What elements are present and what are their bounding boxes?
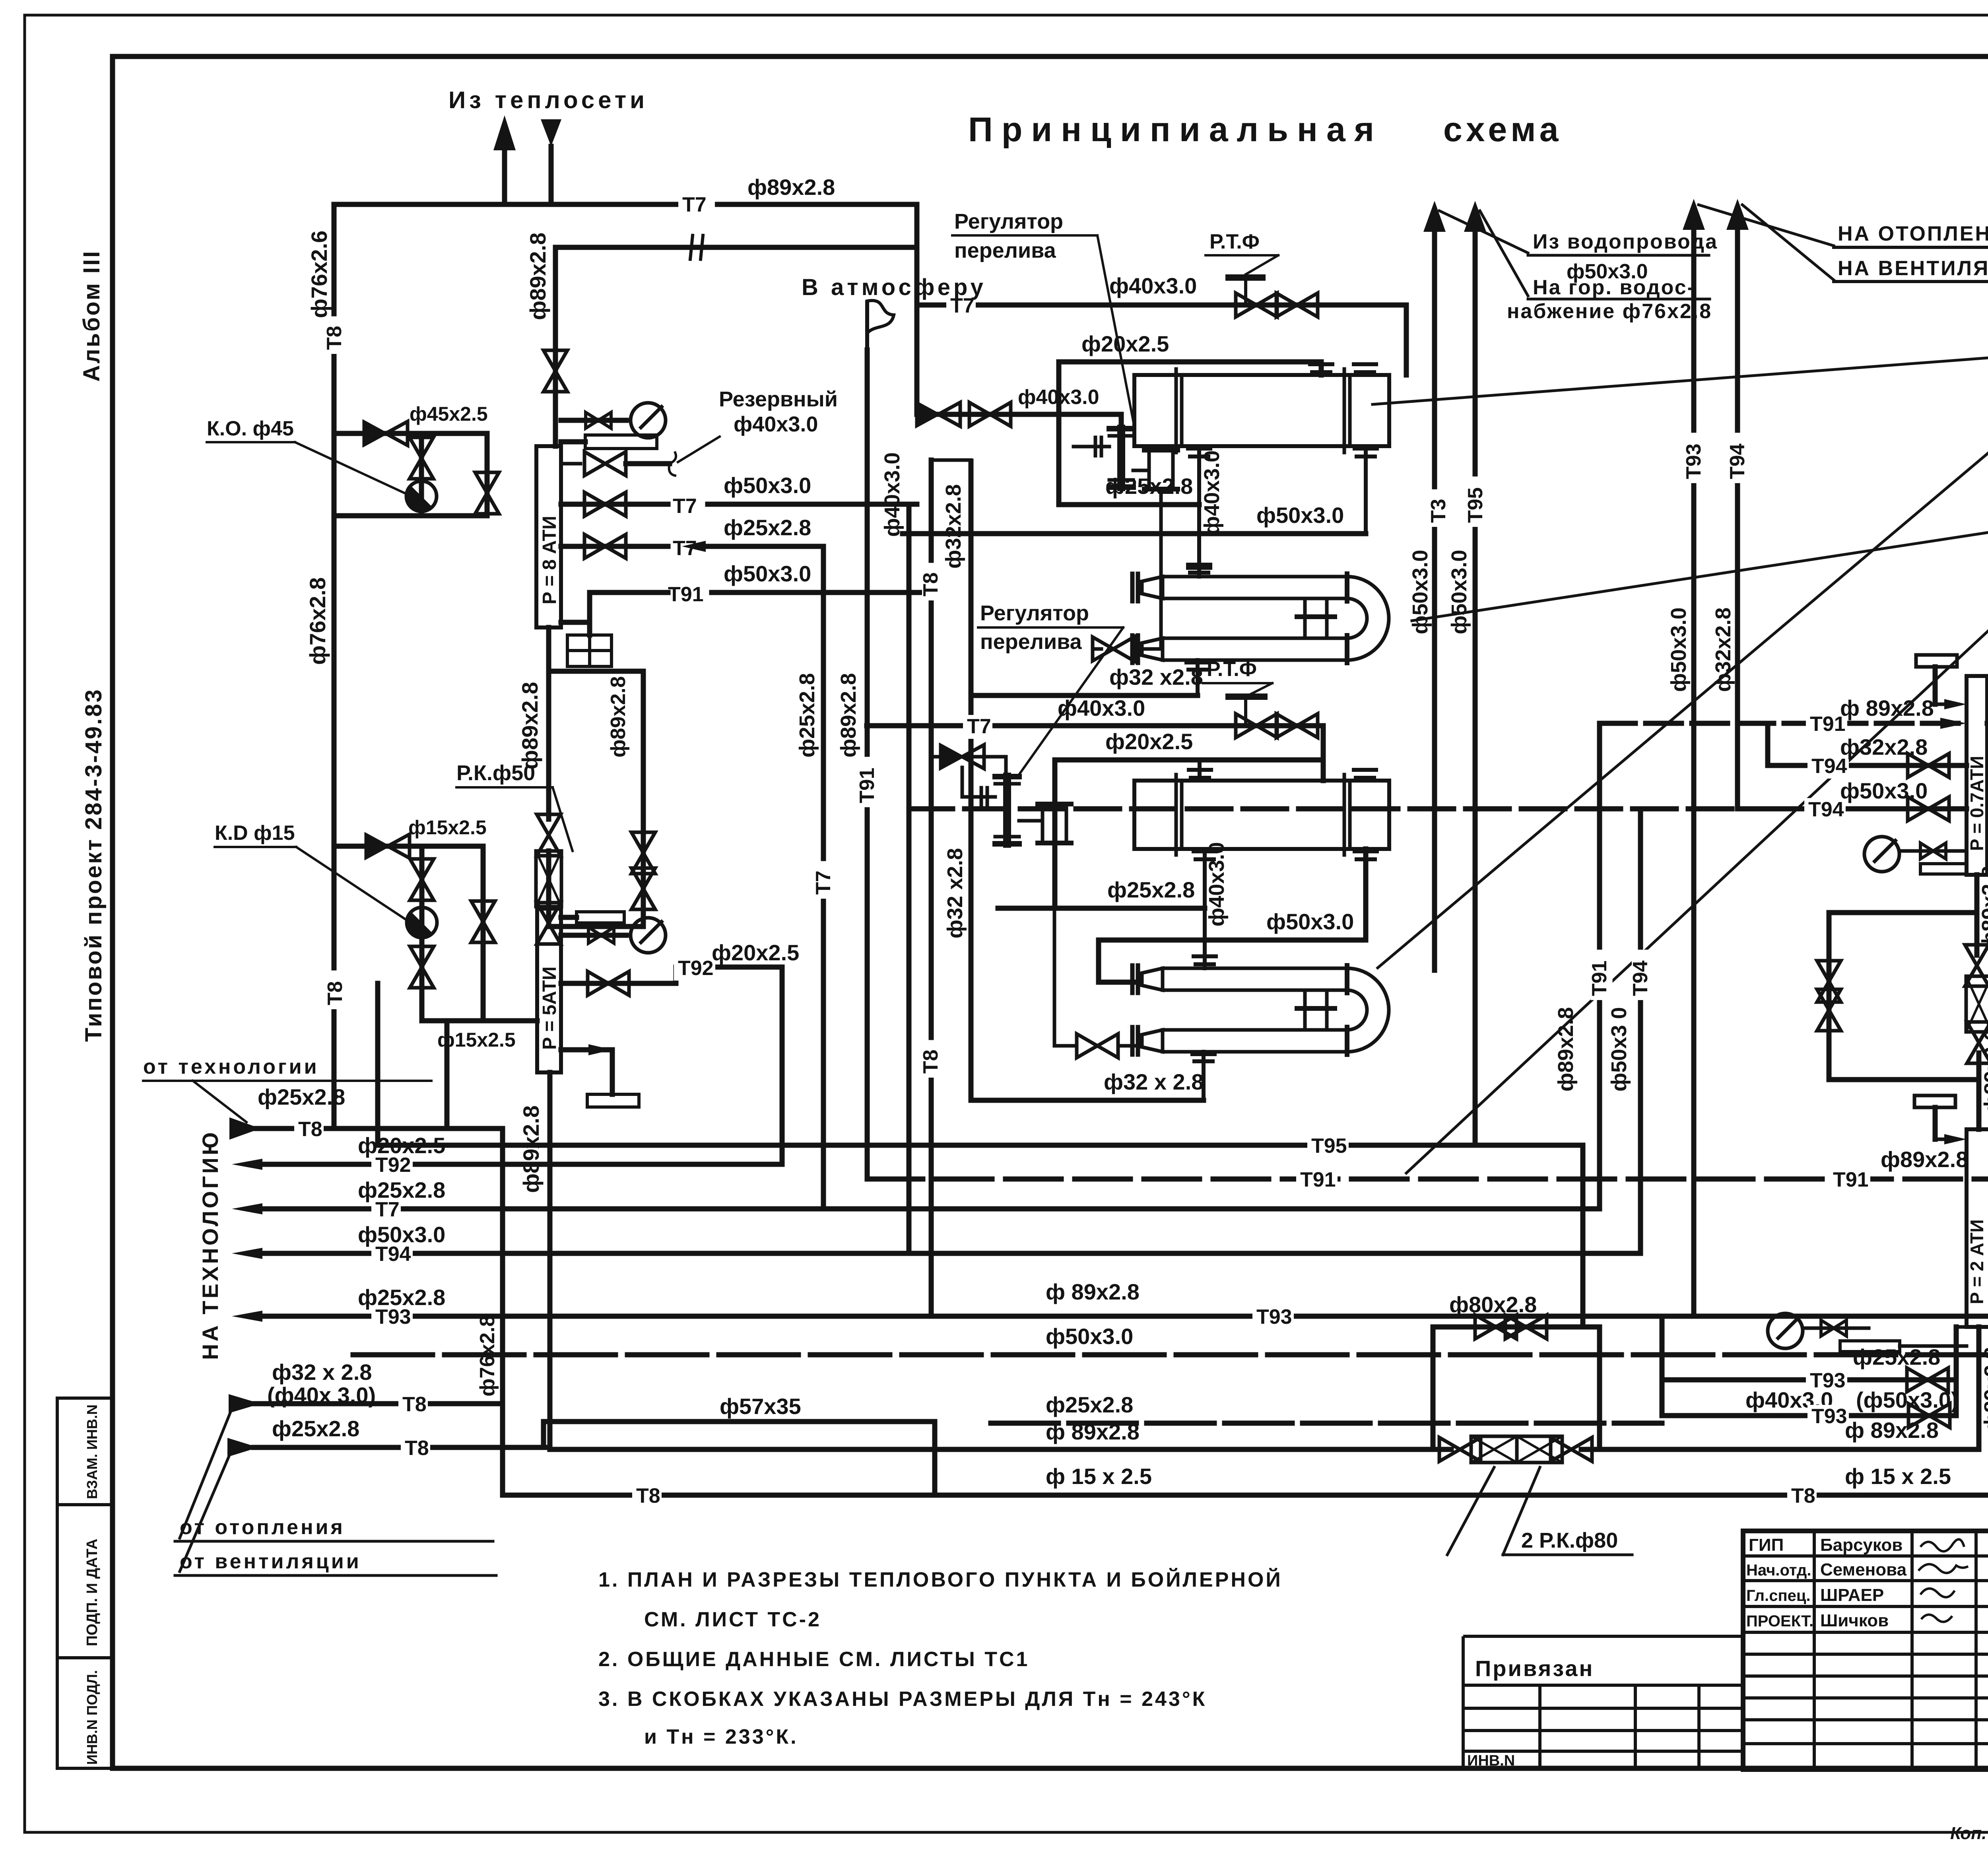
svg-text:ф89х2.8: ф89х2.8 — [837, 673, 860, 758]
reserve branch with hook — [584, 452, 626, 476]
pipe T7 ф50х3.0 from P8 — [561, 502, 668, 507]
svg-text:ф15х2.5: ф15х2.5 — [408, 816, 487, 839]
svg-text:Т8: Т8 — [323, 326, 346, 350]
label Т8 riser — [323, 317, 348, 354]
RTF valve pair 2 — [1236, 714, 1277, 738]
svg-text:ф89х2.8: ф89х2.8 — [1881, 1147, 1968, 1172]
vessel P8 bottom pipe ф89х2.8 — [546, 627, 551, 819]
svg-text:ф45х2.5: ф45х2.5 — [410, 403, 488, 425]
riser T93 — [1683, 199, 1705, 230]
svg-text:ф50х3.0: ф50х3.0 — [1447, 550, 1471, 634]
KO45 left branch vertical — [419, 433, 424, 516]
title block column lines — [1813, 1531, 1816, 1770]
shell2 top right nozzle — [1354, 768, 1376, 772]
regulator 1 drop pipe — [1159, 489, 1163, 649]
pipe KO45 bottom — [334, 513, 487, 519]
svg-text:Типовой проект 284-3-49.83: Типовой проект 284-3-49.83 — [81, 688, 107, 1042]
U-tube1 upper pipe — [1163, 577, 1347, 598]
U-tube2 lower pipe — [1163, 1030, 1347, 1052]
vessel P=2 ATI — [1967, 1129, 1988, 1327]
svg-text:Т7: Т7 — [673, 495, 697, 518]
pipe ф57х35 — [544, 1419, 935, 1424]
svg-text:В атмосферу: В атмосферу — [802, 274, 986, 300]
pipe KO15 top — [334, 844, 483, 849]
svg-text:Т91: Т91 — [1833, 1168, 1869, 1191]
pipe T94 ф32х2.8 to P0.7 — [1765, 723, 1771, 765]
shell1 bottom right nozzle — [1355, 447, 1377, 451]
svg-text:Т8: Т8 — [919, 572, 942, 596]
svg-text:НА ВЕНТИЛЯЦИЮ Ф50х3.0: НА ВЕНТИЛЯЦИЮ Ф50х3.0 — [1838, 257, 1988, 280]
svg-text:Альбом III: Альбом III — [79, 250, 105, 382]
svg-text:перелива: перелива — [954, 239, 1056, 262]
RK50 bypass — [549, 669, 643, 674]
svg-text:СМ. ЛИСТ ТС-2: СМ. ЛИСТ ТС-2 — [644, 1608, 821, 1631]
branch to regulator 2 — [931, 755, 1006, 759]
pipe T8 return horizontal — [555, 245, 917, 250]
thermometer P2 — [1840, 1341, 1900, 1352]
arrow up to heat network — [502, 149, 507, 204]
svg-text:схема: схема — [1443, 111, 1562, 149]
svg-text:Р = 5АТИ: Р = 5АТИ — [539, 966, 560, 1050]
svg-text:ф25х2.8: ф25х2.8 — [795, 673, 819, 758]
check valve KO45 — [364, 422, 408, 445]
svg-text:ф80х2.8: ф80х2.8 — [1449, 1292, 1537, 1317]
leader diagonals to labels — [1373, 347, 1988, 404]
pipe T91 long — [867, 1177, 1988, 1182]
vertical Т91 ф89х2.8 — [865, 350, 870, 1179]
svg-text:ф89х2.8: ф89х2.8 — [517, 682, 542, 769]
line T94 out — [232, 1248, 262, 1259]
U-tube1 return bottom nozzle — [1186, 660, 1209, 664]
P5 T-symbol — [561, 1047, 612, 1053]
svg-text:Т91: Т91 — [1588, 960, 1611, 996]
svg-text:ф20х2.5: ф20х2.5 — [712, 940, 799, 965]
svg-text:Т93: Т93 — [1256, 1305, 1292, 1329]
regulator 2 cylinder — [1019, 819, 1043, 823]
vessel P=0.7 ATI — [1967, 676, 1987, 875]
pipe ф50х3.0 under shell1 — [903, 531, 1366, 536]
U-tube2 baffle — [1303, 990, 1307, 1030]
gauge P8 — [631, 403, 666, 438]
P2 bottom pipe — [1976, 1327, 1982, 1449]
left stamp box ВЗАМ.ИНВ.N — [57, 1398, 113, 1505]
svg-text:от вентиляции: от вентиляции — [180, 1550, 361, 1573]
svg-text:ф76х2.6: ф76х2.6 — [307, 231, 332, 318]
svg-text:Регулятор: Регулятор — [980, 601, 1089, 625]
svg-text:Т8: Т8 — [298, 1118, 322, 1141]
svg-text:Р = 2 АТИ: Р = 2 АТИ — [1967, 1219, 1987, 1304]
shell 2 body — [1134, 781, 1389, 849]
svg-text:Барсуков: Барсуков — [1820, 1535, 1903, 1555]
svg-text:Принципиальная: Принципиальная — [968, 111, 1383, 149]
svg-text:ф 89х2.8: ф 89х2.8 — [1840, 695, 1934, 721]
name row lines — [1743, 1554, 1988, 1558]
left stamp box ПОДП. И ДАТА — [57, 1505, 113, 1658]
svg-text:Привязан: Привязан — [1475, 1656, 1594, 1681]
svg-text:Т8: Т8 — [324, 981, 347, 1005]
RK80 bypass — [1829, 910, 1977, 915]
valve KO45 right — [475, 472, 499, 514]
valve KO45 left — [410, 437, 433, 479]
svg-text:1. ПЛАН И РАЗРЕЗЫ ТЕПЛОВО: 1. ПЛАН И РАЗРЕЗЫ ТЕПЛОВОГО ПУНКТА И БОЙ… — [598, 1568, 1283, 1591]
RK50 body — [536, 851, 561, 907]
pipe ф15х2.5 right of P0.7 — [1987, 721, 1988, 726]
svg-text:ПОДП. И ДАТА: ПОДП. И ДАТА — [84, 1538, 101, 1646]
svg-text:Т8: Т8 — [1791, 1484, 1815, 1507]
svg-text:ф40х3.0: ф40х3.0 — [1109, 273, 1197, 298]
svg-text:Т91: Т91 — [668, 583, 704, 606]
svg-text:перелива: перелива — [980, 630, 1082, 654]
svg-text:Т7: Т7 — [812, 870, 835, 895]
regulator 2 three-way body — [995, 774, 1019, 779]
svg-text:Т93: Т93 — [375, 1305, 411, 1329]
svg-text:ф15х2.5: ф15х2.5 — [437, 1029, 516, 1051]
pipe ф50х3.0 under shell2 — [1099, 938, 1366, 943]
svg-text:ф57х35: ф57х35 — [720, 1394, 801, 1419]
svg-text:ф50х3 0: ф50х3 0 — [1607, 1007, 1631, 1092]
gauge line P8 — [561, 418, 626, 423]
pipe T7 ф40х3.0 feed 2 — [867, 723, 1323, 728]
pipe ф32х2.8 train1 — [971, 693, 1198, 698]
vertical ф76х2.8 down — [500, 1129, 505, 1495]
pipe break symbol — [690, 235, 693, 259]
svg-text:Семенова: Семенова — [1820, 1560, 1907, 1579]
svg-text:ф25х2.8: ф25х2.8 — [724, 515, 811, 540]
svg-text:ф25х2.8: ф25х2.8 — [272, 1416, 359, 1441]
heat meter connection P8 — [561, 620, 590, 625]
pipe ф32х2.8 train2 — [971, 1098, 1204, 1103]
svg-text:ф50х3.0: ф50х3.0 — [1266, 909, 1354, 934]
open triangle drain symbol — [541, 119, 561, 146]
svg-text:ф25х2.8: ф25х2.8 — [1105, 474, 1193, 499]
svg-text:Р.Т.Ф: Р.Т.Ф — [1207, 658, 1257, 681]
svg-text:ШРАЕР: ШРАЕР — [1820, 1585, 1884, 1605]
thermometer pocket P8 — [561, 439, 585, 445]
svg-text:ф20х2.5: ф20х2.5 — [1105, 729, 1193, 754]
svg-text:2 Р.К.ф80: 2 Р.К.ф80 — [1521, 1529, 1618, 1552]
svg-text:Т91: Т91 — [856, 767, 879, 803]
thermometer pocket P5 — [561, 915, 577, 920]
svg-text:ф32 х2.8: ф32 х2.8 — [1109, 664, 1203, 690]
riser T95 — [1464, 201, 1486, 232]
svg-text:К.О. ф45: К.О. ф45 — [207, 417, 294, 440]
shell2 bottom left nozzle to U-tube2 — [1194, 849, 1216, 853]
svg-text:ф50х3.0: ф50х3.0 — [724, 473, 811, 498]
pipe corner vertical right — [914, 204, 920, 414]
svg-text:ф76х2.8: ф76х2.8 — [305, 577, 330, 665]
shell1 top right nozzle — [1354, 362, 1376, 366]
KO45 right branch vertical — [485, 433, 490, 516]
pipe T92 from P5 — [561, 981, 676, 986]
heat meter box P8 — [567, 635, 612, 666]
RK80 horizontal pair — [1471, 1436, 1517, 1463]
gauge P0.7 — [1864, 837, 1899, 872]
svg-text:ф 15 х 2.5: ф 15 х 2.5 — [1046, 1464, 1152, 1489]
arrow into T8 — [229, 1117, 260, 1140]
svg-text:Гл.спец.: Гл.спец. — [1746, 1587, 1811, 1604]
svg-text:ф40х3.0: ф40х3.0 — [1200, 451, 1224, 535]
pipe ф89х2.8 with 2RK80 — [550, 1447, 1451, 1452]
svg-text:Р.К.ф50: Р.К.ф50 — [456, 761, 535, 785]
svg-text:набжение ф76х2.8: набжение ф76х2.8 — [1507, 300, 1712, 323]
line T7 out — [232, 1203, 262, 1214]
svg-text:Из теплосети: Из теплосети — [448, 87, 648, 113]
svg-text:Шичков: Шичков — [1820, 1611, 1889, 1630]
riser T8 ф76х2.6 — [332, 204, 337, 968]
svg-text:ф40х3.0: ф40х3.0 — [880, 453, 904, 537]
svg-text:Т95: Т95 — [1464, 487, 1487, 523]
RK80 bypass top — [1433, 1325, 1600, 1330]
pipe T91 ф89х2.8 dashed feed — [1600, 721, 1967, 726]
svg-text:Резервный: Резервный — [719, 387, 838, 411]
RK80 valve — [1965, 945, 1988, 986]
privyazan box — [1463, 1635, 1743, 1638]
KO15 left vertical — [419, 846, 425, 1021]
pipe T91 ф50х3.0 from P8 — [590, 590, 668, 595]
vertical ф89х2.8 to vessel P8 — [553, 247, 558, 446]
svg-text:Т8: Т8 — [405, 1437, 429, 1460]
KO15 right vertical — [481, 846, 486, 1021]
label T7 — [678, 193, 715, 216]
riser T94 — [1726, 199, 1749, 230]
U-tube1 lower pipe — [1163, 638, 1347, 660]
svg-text:ф 89х2.8: ф 89х2.8 — [1046, 1419, 1140, 1444]
svg-text:2. ОБЩИЕ ДАННЫЕ СМ. ЛИСТЫ: 2. ОБЩИЕ ДАННЫЕ СМ. ЛИСТЫ ТС1 — [598, 1648, 1029, 1671]
line T93 out long — [232, 1311, 262, 1322]
reserve line ф40х3.0 — [561, 462, 580, 466]
T-symbol above P0.7 — [1916, 655, 1957, 667]
shell2 top left nozzle — [1189, 768, 1211, 772]
svg-text:Регулятор: Регулятор — [954, 210, 1063, 233]
svg-text:и Тн = 233°К.: и Тн = 233°К. — [644, 1725, 798, 1748]
svg-text:ф89х2.8: ф89х2.8 — [525, 233, 550, 320]
P0.7 bottom pipe — [1974, 875, 1980, 955]
svg-text:Т94: Т94 — [1726, 443, 1749, 479]
pipe T7 ф25х2.8 from P8 — [561, 544, 668, 549]
svg-text:ф32 х2.8: ф32 х2.8 — [943, 848, 967, 938]
svg-text:Р.Т.Ф: Р.Т.Ф — [1209, 230, 1260, 253]
svg-text:ф32х2.8: ф32х2.8 — [1711, 608, 1735, 692]
elevator ball KO45 — [406, 481, 437, 511]
svg-text:Т8: Т8 — [636, 1484, 660, 1507]
svg-text:от технологии: от технологии — [143, 1055, 319, 1078]
svg-text:от отопления: от отопления — [180, 1516, 345, 1539]
regulator 2 left stub — [962, 795, 995, 799]
U-tube2 bend — [1347, 968, 1389, 1052]
svg-text:На гор. водос-: На гор. водос- — [1533, 276, 1695, 299]
leaders from otopleniya — [180, 1407, 233, 1538]
T-symbol above P2 — [1914, 1096, 1955, 1107]
svg-text:ф25х2.8: ф25х2.8 — [1046, 1392, 1133, 1417]
riser T3 — [1423, 201, 1446, 232]
title block outer — [1743, 1531, 1988, 1770]
svg-text:ИНВ.N: ИНВ.N — [1467, 1752, 1515, 1769]
svg-text:ф89х2.8: ф89х2.8 — [518, 1105, 544, 1193]
pipe ф20х2.5 2 — [1055, 758, 1323, 763]
svg-text:ф 89х2.8: ф 89х2.8 — [1845, 1418, 1939, 1443]
svg-text:НА ОТОПЛЕНИЕ ф32х2.8: НА ОТОПЛЕНИЕ ф32х2.8 — [1838, 222, 1988, 245]
pipe ф20х2.5 1 — [1059, 359, 1321, 365]
svg-text:ф40х3.0: ф40х3.0 — [734, 412, 818, 436]
svg-text:Т91: Т91 — [1300, 1168, 1336, 1191]
pipe T94 ф50х3.0 to P0.7 — [1738, 806, 1967, 812]
svg-text:3. В СКОБКАХ УКАЗАНЫ РАЗМЕР: 3. В СКОБКАХ УКАЗАНЫ РАЗМЕРЫ ДЛЯ Тн = 24… — [598, 1688, 1207, 1711]
svg-text:ф32 х 2.8: ф32 х 2.8 — [272, 1360, 372, 1385]
U-tube1 top nozzle flange — [1188, 566, 1210, 570]
svg-text:ф32х2.8: ф32х2.8 — [942, 484, 965, 569]
svg-text:Т7: Т7 — [682, 193, 707, 216]
svg-text:Т92: Т92 — [375, 1154, 411, 1177]
svg-text:ф50х3.0: ф50х3.0 — [1256, 503, 1344, 528]
svg-text:Нач.отд.: Нач.отд. — [1746, 1562, 1811, 1579]
pipe ф25х2.8 under shell2 — [998, 906, 1205, 911]
svg-text:Коп. И.Ч.: Коп. И.Ч. — [1950, 1824, 1988, 1843]
svg-text:ВЗАМ. ИНВ.N: ВЗАМ. ИНВ.N — [84, 1404, 100, 1499]
pipe T7 top horizontal — [334, 202, 917, 207]
RTF valve pair 1 — [1236, 293, 1277, 317]
svg-text:ПРОЕКТ.: ПРОЕКТ. — [1746, 1612, 1813, 1630]
valve on ф89х2.8 vertical — [544, 350, 567, 392]
svg-text:ф 15 х 2.5: ф 15 х 2.5 — [1845, 1464, 1951, 1489]
svg-text:ф 89х2.8: ф 89х2.8 — [1046, 1279, 1140, 1304]
svg-text:Р = 0.7АТИ: Р = 0.7АТИ — [1967, 756, 1987, 851]
svg-text:НА ТЕХНОЛОГИЮ: НА ТЕХНОЛОГИЮ — [198, 1130, 223, 1360]
svg-text:Т93: Т93 — [1682, 443, 1705, 479]
svg-text:ф89х2.8: ф89х2.8 — [1978, 866, 1988, 950]
svg-text:ф25х2.8: ф25х2.8 — [358, 1177, 445, 1202]
valve above RK50 — [537, 814, 561, 856]
left stamp box ИНВ.N ПОДЛ. — [57, 1658, 113, 1768]
svg-text:Т95: Т95 — [1311, 1134, 1347, 1158]
pipe ф50х3.0 long — [353, 1352, 1988, 1358]
pipe T95 long — [378, 1143, 1583, 1148]
U-tube1 bend — [1347, 577, 1389, 660]
pipe KO45 top — [334, 431, 487, 436]
regulator 1 cylinder — [1133, 469, 1149, 472]
svg-text:ф20х2.5: ф20х2.5 — [1081, 331, 1169, 356]
vertical Т8 long — [929, 460, 934, 1316]
svg-text:ф89х2.6: ф89х2.6 — [1980, 1029, 1988, 1113]
pipe T8 ф15х2.5 long bottom — [503, 1493, 1988, 1498]
svg-text:Из водопровода: Из водопровода — [1533, 230, 1718, 253]
shell2 bottom right nozzle — [1355, 849, 1377, 853]
svg-text:ф89х2.8: ф89х2.8 — [607, 676, 630, 758]
svg-text:ф50х3.0: ф50х3.0 — [1046, 1324, 1133, 1349]
svg-text:ф89х2.8: ф89х2.8 — [1980, 1347, 1988, 1432]
svg-text:Р = 8 АТИ: Р = 8 АТИ — [539, 516, 560, 604]
U-tube1 baffle — [1303, 598, 1307, 638]
regulator 2 drop pipe — [1053, 843, 1056, 1046]
regulator 1 three-way body — [1109, 426, 1133, 431]
pipe ф25х2.8 under shell1 — [1059, 502, 1199, 507]
svg-text:Т94: Т94 — [1808, 798, 1844, 821]
thermometer P0.7 — [1920, 864, 1967, 874]
leaders heating labels — [1699, 205, 1834, 246]
vessel P8 body — [536, 446, 561, 627]
vessel P5 body — [537, 909, 561, 1072]
shell 1 body — [1134, 375, 1389, 446]
svg-text:Т92: Т92 — [678, 957, 714, 980]
svg-text:Т94: Т94 — [1629, 960, 1652, 996]
gauge line P5 — [561, 933, 626, 938]
svg-text:Т7: Т7 — [375, 1198, 400, 1221]
svg-text:ф40х3.0: ф40х3.0 — [1205, 842, 1229, 927]
valve below RK50 — [537, 903, 561, 944]
svg-text:Т3: Т3 — [1427, 499, 1450, 523]
pipes T93 into P2 — [1662, 1377, 1956, 1383]
svg-text:Т7: Т7 — [967, 715, 991, 738]
U-tube2 upper pipe — [1163, 968, 1347, 990]
pipe to regulator 1 — [917, 412, 1121, 417]
svg-text:ф89х2.8: ф89х2.8 — [1554, 1007, 1578, 1092]
svg-text:ГИП: ГИП — [1749, 1535, 1784, 1555]
vessel P5 bottom pipe — [547, 1072, 553, 1449]
shell1 top mid nozzle — [1320, 362, 1323, 375]
regulator 1 left stub — [1074, 445, 1109, 449]
svg-text:К.D ф15: К.D ф15 — [215, 822, 295, 845]
svg-text:Т93: Т93 — [1811, 1405, 1847, 1428]
leaders water inlet labels — [1439, 211, 1528, 253]
svg-text:Т94: Т94 — [375, 1243, 411, 1266]
line T92 — [232, 1159, 262, 1170]
U-tube2 return bottom nozzle — [1192, 1052, 1215, 1056]
svg-text:ф89х2.8: ф89х2.8 — [747, 175, 835, 200]
svg-text:ф50х3.0: ф50х3.0 — [724, 561, 811, 586]
svg-text:ф25х2.8: ф25х2.8 — [258, 1084, 345, 1109]
pipe KO15 bottom — [422, 1018, 537, 1024]
pipe T7 ф40х3.0 feed 1 upper — [917, 303, 1406, 308]
pipe ф25х2.8 lower mid — [991, 1421, 1662, 1426]
svg-text:ф25х2.8: ф25х2.8 — [1107, 877, 1195, 902]
label Т8 riser lower — [324, 972, 348, 1009]
svg-text:ф32 х 2.8: ф32 х 2.8 — [1104, 1069, 1204, 1094]
shell1 bottom left nozzle to U-tube — [1188, 447, 1210, 451]
gauge P2 — [1768, 1313, 1803, 1348]
valve reserve — [584, 492, 626, 516]
svg-text:ф50х3.0: ф50х3.0 — [1667, 608, 1691, 692]
svg-text:Т8: Т8 — [919, 1049, 942, 1074]
svg-text:Т8: Т8 — [402, 1393, 427, 1416]
svg-text:ИНВ.N ПОДЛ.: ИНВ.N ПОДЛ. — [84, 1670, 100, 1765]
leader КО45 — [295, 442, 406, 494]
svg-text:ф40х3.0: ф40х3.0 — [1058, 695, 1145, 721]
